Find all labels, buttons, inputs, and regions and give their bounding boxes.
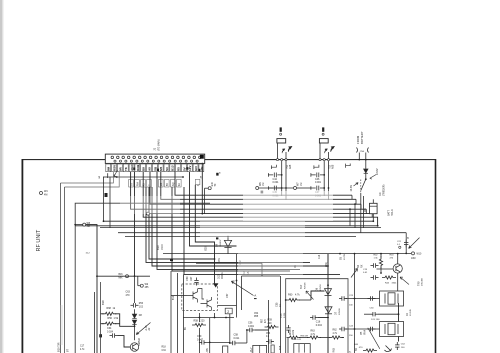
junction C47 [323, 187, 325, 189]
wire rail x268 [268, 300, 270, 353]
svg-text:B8: B8 [142, 167, 146, 171]
wire D8 down [134, 324, 136, 340]
wire C48 top [372, 199, 374, 203]
pin name box dark mark [133, 168, 135, 170]
dark mark on x100 rail [99, 334, 102, 337]
resistor R59 [265, 325, 279, 328]
svg-text:HOLD: HOLD [391, 209, 394, 216]
svg-text:R53: R53 [139, 303, 144, 305]
wire pin17 bus y214 [202, 163, 372, 214]
svg-text:1S1007: 1S1007 [220, 239, 222, 247]
shield box top-left corner [75, 203, 210, 353]
terminal CN3 b [323, 159, 325, 161]
junction switch [365, 178, 367, 180]
pin name box dark mark [157, 169, 159, 171]
wire R42 top [380, 254, 382, 258]
svg-text:B18: B18 [101, 300, 105, 305]
connector J1 pin name box 15 [187, 164, 192, 172]
wire C58-C56 lead [238, 342, 247, 344]
wire C60 node [378, 313, 399, 315]
wire CN4 b to frame [365, 153, 367, 160]
connector J1 pin name box 10 [158, 164, 163, 172]
capacitor C58 [230, 341, 238, 345]
capacitor C47 [311, 186, 324, 191]
svg-text:5V: 5V [182, 167, 186, 171]
connector J1 pin 5 [133, 156, 136, 159]
svg-text:1C0 1S0: 1C0 1S0 [371, 319, 380, 321]
connector J1 pin 14 [182, 156, 185, 159]
resistor R44 [382, 276, 396, 279]
arrow annotation at bus left [114, 170, 118, 177]
svg-text:10.7M: 10.7M [344, 254, 346, 260]
connector J1 pin 18 [114, 160, 116, 162]
connector J1 pin name box 4 [123, 164, 128, 172]
IFT T2 inner bar [259, 345, 261, 353]
wire D9 bottom [227, 248, 229, 254]
junction C48 bus [372, 220, 374, 222]
wire switch rail down [360, 193, 362, 233]
bus y221 [104, 220, 374, 222]
connector J1 pin 19 [119, 160, 121, 162]
junction C20 [380, 272, 382, 274]
wire C63-D8 [134, 309, 136, 314]
wire to W1 [205, 187, 209, 189]
connector CN3 body [319, 139, 328, 143]
bus line y233 [118, 232, 406, 234]
svg-text:T8: T8 [124, 167, 128, 171]
svg-text:RXB: RXB [136, 164, 140, 171]
pin aux label box [171, 179, 176, 187]
pin aux label box [147, 179, 152, 187]
svg-text:1SV99: 1SV99 [339, 308, 341, 315]
junction y254 a [339, 253, 341, 255]
connector J1 pin name box 7 [141, 164, 146, 172]
svg-text:B12: B12 [173, 295, 175, 300]
svg-text:B16: B16 [119, 274, 124, 276]
bus line y276 mid [242, 275, 281, 277]
wire pin10 bus y199 [161, 172, 356, 200]
wire CN3 hook pin [328, 152, 330, 159]
resistor R61 [287, 336, 301, 339]
wire rail x103b [103, 177, 105, 222]
wire TR9 emitter down [397, 273, 399, 291]
resistor R60 [286, 298, 300, 301]
svg-text:R66 4R: R66 4R [301, 336, 309, 338]
pin name box dark mark [198, 169, 200, 171]
junction battery b [365, 159, 367, 161]
filter FL1 dashed box [182, 284, 218, 310]
wire R56 left [101, 323, 104, 325]
svg-text:A-1C: A-1C [145, 325, 148, 331]
svg-text:470: 470 [126, 294, 131, 297]
pin aux label box [177, 179, 182, 187]
connector J1 pin name box 8 [147, 164, 152, 172]
annotation arrow B4 [351, 269, 358, 278]
svg-text:TR9: TR9 [417, 281, 420, 286]
junction CN3 line [328, 187, 330, 189]
connector J1 pin 4 [127, 156, 130, 159]
wire W5 down rail x97 [86, 225, 97, 353]
xtal rail x354 [354, 254, 356, 353]
diode D8 [132, 314, 136, 318]
filter FL1 element 2 [201, 297, 212, 311]
terminal CN2 b [281, 159, 283, 161]
junction X1 [354, 298, 356, 300]
stub b [355, 199, 357, 204]
dark mark near W1 [216, 173, 218, 176]
connector CN2 plug hook small [282, 149, 285, 153]
wire R58 down [199, 328, 201, 353]
annotation A underline mark [254, 298, 257, 299]
svg-text:R56: R56 [108, 317, 113, 320]
capacitor C25 [368, 296, 376, 300]
wire CN3 left pin [319, 143, 321, 159]
wire pin3 to left rail B11 [65, 172, 120, 187]
svg-text:1C0: 1C0 [139, 306, 144, 308]
svg-text:0.001: 0.001 [248, 325, 255, 328]
svg-text:C57: C57 [226, 293, 229, 298]
svg-text:MIX: MIX [119, 277, 124, 279]
svg-text:C17: C17 [80, 346, 85, 348]
capacitor C23 [339, 296, 347, 300]
svg-text:W10: W10 [417, 254, 422, 256]
wire X1 left [346, 298, 380, 300]
node line y317 [183, 317, 234, 319]
wire rail x183 [183, 274, 185, 353]
svg-text:M5: M5 [159, 167, 163, 171]
wire left rail B11 [64, 187, 66, 353]
svg-text:CN4: CN4 [360, 151, 365, 153]
coil L9 bar (cut) [271, 345, 274, 353]
connector J1 pin 13 [177, 156, 180, 159]
junction mid [134, 275, 136, 277]
wire y233 down [405, 233, 407, 254]
junction pin16 [214, 258, 216, 260]
connector J1 pin 10 [160, 156, 163, 159]
page left edge shading [0, 0, 2, 353]
svg-text:B17: B17 [300, 284, 303, 289]
trimmer CT1 [385, 346, 392, 352]
node line y177 [108, 176, 183, 178]
wire diode to switch [365, 174, 367, 180]
terminal W6 [256, 187, 259, 190]
wire pin9 bus y204 [150, 172, 361, 205]
junction C59 [209, 342, 211, 344]
svg-text:220: 220 [201, 320, 206, 323]
svg-text:J1: J1 [153, 147, 157, 150]
svg-text:C50: C50 [186, 276, 189, 281]
svg-text:220: 220 [268, 322, 273, 325]
wire R63-R62 [320, 337, 331, 339]
svg-text:MI301: MI301 [221, 272, 224, 279]
svg-text:103k: 103k [293, 329, 295, 335]
svg-text:R63: R63 [333, 347, 336, 352]
capacitor C62 [395, 342, 399, 350]
schematic frame top border left segment [22, 159, 105, 161]
capacitor C15b [286, 325, 290, 333]
connector J1 pin 20 [125, 160, 127, 162]
svg-text:RF UNIT: RF UNIT [36, 229, 42, 251]
wire pin8 bus y259 [149, 187, 215, 285]
svg-text:RX B8: RX B8 [305, 282, 307, 289]
wire pin1 to test point 9 [103, 176, 108, 178]
wire to D6 anode [311, 291, 325, 300]
wire mid down a [246, 330, 248, 343]
crystal X2 outer [380, 322, 404, 337]
wire TP3 to bus [150, 213, 203, 215]
connector CN4 bracket [357, 148, 369, 153]
scan smudge 3 [60, 305, 63, 345]
connector J1 pin 9 [155, 156, 158, 159]
inductor stub CN3 [314, 165, 319, 169]
wire C20 to TR9 base [377, 268, 394, 270]
capacitor C21b polarity ring [399, 246, 401, 248]
svg-text:13.8V: 13.8V [376, 168, 379, 175]
capacitor C45 [268, 186, 281, 191]
wire osc top node [340, 253, 411, 255]
wire CN2 rail 1 [281, 161, 283, 196]
connector J1 pin name box 17 [199, 164, 204, 172]
wire CT2 down [229, 314, 231, 343]
wire C16 to rail [318, 317, 328, 319]
wire R61 down [287, 338, 289, 353]
connector J1 pin name box 11 [164, 164, 169, 172]
junction C44 [281, 174, 283, 176]
connector J1 pin 1 [111, 156, 114, 159]
junction C16 [327, 317, 329, 319]
svg-text:R60: R60 [288, 294, 293, 297]
schematic frame left border [21, 159, 23, 353]
svg-text:R55: R55 [254, 316, 259, 318]
svg-text:BATTERY: BATTERY [360, 131, 364, 144]
svg-text:1M: 1M [262, 183, 265, 186]
wire C48 down [372, 214, 374, 222]
wire C56 to rail [255, 329, 269, 331]
wire pin16 drop [195, 185, 214, 259]
svg-text:B19: B19 [156, 245, 160, 250]
wire X1 to X2 right [398, 303, 400, 325]
pin aux label box [165, 179, 170, 187]
svg-text:B13: B13 [171, 165, 175, 171]
pin aux label box [135, 179, 140, 187]
connector J1 pin name box 13 [176, 164, 181, 172]
VCO rail x328 [327, 254, 329, 353]
connector J1 pin 15 [188, 156, 191, 159]
scan fade over buses 3 [238, 249, 303, 275]
terminal CN2 a [276, 159, 278, 161]
junction battery a [358, 159, 360, 161]
terminal TP3 [147, 212, 150, 215]
svg-text:0.001: 0.001 [284, 312, 286, 318]
svg-text:R63: R63 [311, 331, 316, 333]
svg-text:C54: C54 [254, 313, 259, 315]
IFT T1 box (cut) [223, 346, 228, 353]
connector J1 pin 7 [144, 156, 147, 159]
junction CN2 line [285, 187, 287, 189]
connector J1 pin 33 [196, 160, 198, 162]
wire left rail B10 [60, 183, 62, 353]
svg-text:10.245: 10.245 [410, 309, 412, 316]
svg-text:R5: R5 [177, 167, 181, 171]
resistor R58 [192, 323, 206, 326]
junction batt b [354, 203, 356, 205]
wire pin5 bus y209 [131, 172, 367, 210]
connector J1 pin 25 [152, 160, 154, 162]
connector J1 pin name box 12 [170, 164, 175, 172]
pin name box dark mark [187, 167, 189, 169]
junction chain [134, 325, 136, 327]
svg-text:4M: 4M [87, 225, 90, 228]
bus line y226 [75, 225, 378, 227]
connector J1 pin 12 [171, 156, 174, 159]
connector CN3 plug hook small [325, 149, 328, 153]
annotation arrow TR8 [136, 323, 150, 335]
capacitor C26 [368, 327, 376, 331]
svg-text:0.001: 0.001 [315, 181, 322, 184]
junction R42 [380, 253, 382, 255]
wire D9 rail down [236, 254, 238, 318]
capacitor C53 [266, 339, 274, 343]
terminal CN3 a [319, 159, 321, 161]
svg-text:(TR8520R): (TR8520R) [384, 184, 386, 196]
capacitor C24 [339, 327, 347, 331]
resistor R42 [379, 256, 382, 269]
junction X2 [354, 328, 356, 330]
wire mid down b [209, 318, 211, 353]
stub e [371, 214, 373, 218]
wire rail x94 [94, 292, 96, 353]
junction D6 [327, 284, 329, 286]
wire pin10b bus y266 [152, 187, 328, 266]
connector J1 pin 17 polarity mark [200, 155, 204, 159]
switch S1 lever [361, 179, 366, 190]
connector J1 pin 11 [166, 156, 169, 159]
svg-text:RX4: RX4 [364, 329, 366, 334]
junction CT2 [229, 342, 231, 344]
capacitor C16 [310, 315, 318, 319]
pin aux label box [159, 179, 164, 187]
svg-text:A0B: A0B [331, 164, 334, 169]
IFT T2 box (cut) [253, 345, 267, 353]
svg-text:B20: B20 [206, 246, 208, 251]
annotation arrow 13.8V left [354, 183, 359, 186]
connector J1 pin 16 [193, 156, 196, 159]
wire R68 left [101, 313, 104, 315]
wire batt rail b [354, 204, 356, 227]
switch S1 dashed link [360, 180, 362, 194]
wire FL1 out [218, 305, 237, 307]
connector J1 pin 8 [149, 156, 152, 159]
dark mark near D9 [216, 237, 218, 239]
connector J1 pin 3 [122, 156, 125, 159]
connector CN3 label mark [322, 127, 324, 131]
bus y254 [163, 253, 340, 255]
wire to FL1 [241, 276, 243, 310]
terminal B16 [126, 275, 129, 278]
resistor R63 [307, 336, 321, 339]
svg-text:0.024: 0.024 [107, 330, 114, 333]
wire C60 left [364, 313, 370, 315]
svg-text:A9: A9 [147, 167, 151, 171]
svg-text:VCO: VCO [160, 244, 164, 250]
capacitor C44 [268, 173, 281, 178]
capacitor C50 [194, 278, 198, 286]
wire rail x171 [170, 271, 172, 353]
connector J1 pin 29 [174, 160, 176, 162]
svg-text:2: 2 [227, 310, 229, 314]
scan fade over buses 2 [200, 221, 305, 238]
connector J1 pin 27 [163, 160, 165, 162]
svg-text:2SC460: 2SC460 [422, 277, 424, 286]
connector J1 pin name box 9 [152, 164, 157, 172]
wire battery feed [365, 160, 367, 169]
connector J1 pin 21 [130, 160, 132, 162]
svg-text:C51: C51 [219, 257, 221, 262]
scan fade over buses 4 [120, 196, 180, 214]
stub a [351, 195, 353, 199]
connector J1 pin name box 5 [129, 164, 134, 172]
svg-text:R62: R62 [333, 330, 338, 332]
wire rail x177 [177, 273, 179, 353]
terminal W7 [294, 187, 297, 190]
bus line y237 [125, 236, 356, 238]
svg-text:A0B: A0B [289, 164, 292, 169]
stub d [365, 209, 367, 213]
capacitor C20 [371, 275, 379, 279]
junction on node y177 [182, 176, 184, 178]
wire R loop right [115, 314, 135, 327]
svg-text:R68: R68 [107, 307, 112, 310]
wire to terminal W5 [75, 224, 82, 226]
schematic frame top border right segment [205, 159, 436, 161]
junction arrow A [236, 280, 238, 282]
scan fade over buses 1 [243, 191, 333, 221]
connector CN2 body [277, 139, 286, 143]
annotation arrow TR9 [400, 277, 409, 285]
svg-text:R58: R58 [194, 320, 199, 323]
junction R58 top [199, 317, 201, 319]
connector CN3 label ring [322, 133, 324, 135]
svg-text:RM: RM [136, 182, 139, 186]
junction y217 hook [377, 225, 379, 227]
wire pin15 drop [190, 172, 237, 246]
junction D9 [227, 236, 229, 238]
svg-text:8T: 8T [66, 349, 70, 352]
svg-text:RSV: RSV [113, 165, 117, 171]
connector J1 pin 32 [191, 160, 193, 162]
junction on shield left [74, 224, 76, 226]
capacitor C63 [131, 303, 139, 307]
wire pin13 bus y195 [175, 172, 352, 196]
wire TR9 collector [397, 254, 399, 264]
svg-text:AN: AN [200, 167, 204, 171]
connector J1 pin 28 [169, 160, 171, 162]
wire drop to W9 [137, 276, 139, 286]
junction R60 [285, 299, 287, 301]
svg-text:JP6: JP6 [206, 348, 209, 353]
connector J1 pin 2 [117, 156, 120, 159]
connector CN2 plug hook [288, 146, 292, 152]
diode D11 [364, 169, 368, 173]
pin aux label box [129, 179, 134, 187]
stub terminal B [346, 164, 351, 168]
capacitor C48 body [370, 203, 378, 213]
wire node y276 b [126, 275, 150, 277]
svg-text:0.001: 0.001 [273, 181, 280, 184]
wire CN3 rail 1 [323, 161, 325, 196]
wire pin12 bus y271 [172, 187, 290, 271]
junction C46 [323, 174, 325, 176]
